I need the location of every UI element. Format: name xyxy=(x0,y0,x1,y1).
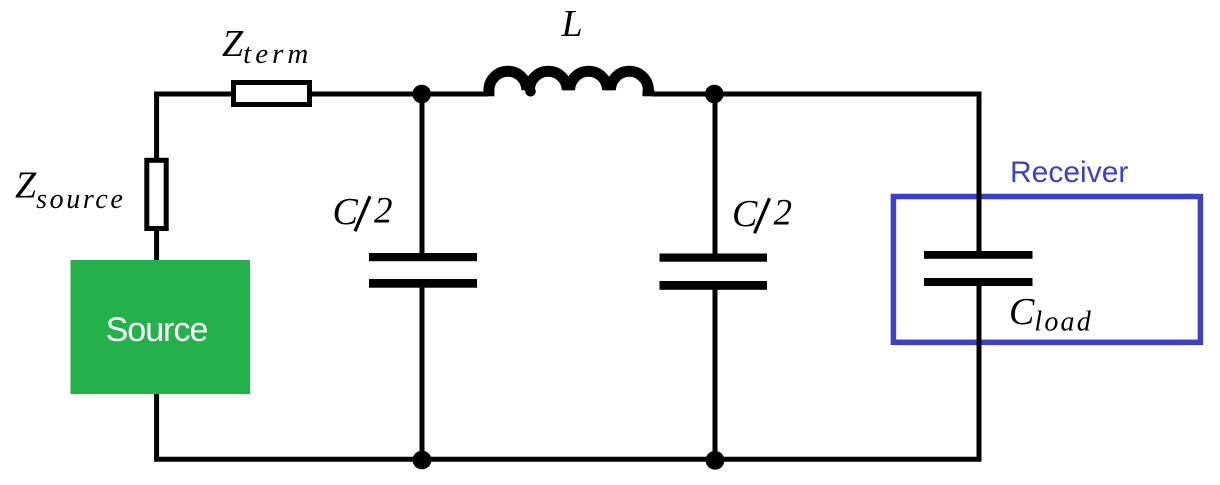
svg-text:Receiver: Receiver xyxy=(1010,156,1128,189)
node junction bottom right xyxy=(706,451,725,470)
wire right vertical lower xyxy=(977,284,982,459)
svg-text:Source: Source xyxy=(106,311,208,349)
label C/2 first xyxy=(333,191,393,234)
receiver box xyxy=(893,197,1200,343)
capacitor Cload xyxy=(924,251,1033,286)
svg-text:Zterm: Zterm xyxy=(222,23,312,70)
capacitor C/2 second xyxy=(660,254,768,290)
wire left vertical xyxy=(154,92,159,460)
node junction top left xyxy=(412,85,431,104)
wire capacitor 2 upper xyxy=(713,92,718,256)
node junction bottom left xyxy=(413,451,432,470)
capacitor C/2 first xyxy=(369,253,477,288)
node junction top right xyxy=(705,85,724,104)
wire top segment 1 xyxy=(154,92,236,97)
resistor Zsource xyxy=(147,160,166,228)
svg-text:C: C xyxy=(732,193,758,235)
svg-text:2: 2 xyxy=(374,191,393,232)
wire right vertical upper xyxy=(977,92,982,254)
label C/2 second xyxy=(732,193,792,236)
wire capacitor 1 lower xyxy=(420,285,425,459)
svg-text:Cload: Cload xyxy=(1009,291,1093,337)
wire top segment 2 xyxy=(310,92,488,97)
svg-text:Zsource: Zsource xyxy=(15,165,125,216)
source box xyxy=(71,260,251,394)
svg-text:L: L xyxy=(561,3,583,45)
wire top segment 3 xyxy=(652,92,982,97)
resistor Zterm xyxy=(234,83,310,105)
wire capacitor 2 lower xyxy=(713,287,718,459)
svg-text:2: 2 xyxy=(774,193,793,234)
svg-text:C: C xyxy=(333,191,359,233)
wire capacitor 1 upper xyxy=(420,92,425,256)
inductor L xyxy=(483,71,654,96)
wire bottom xyxy=(154,457,981,462)
